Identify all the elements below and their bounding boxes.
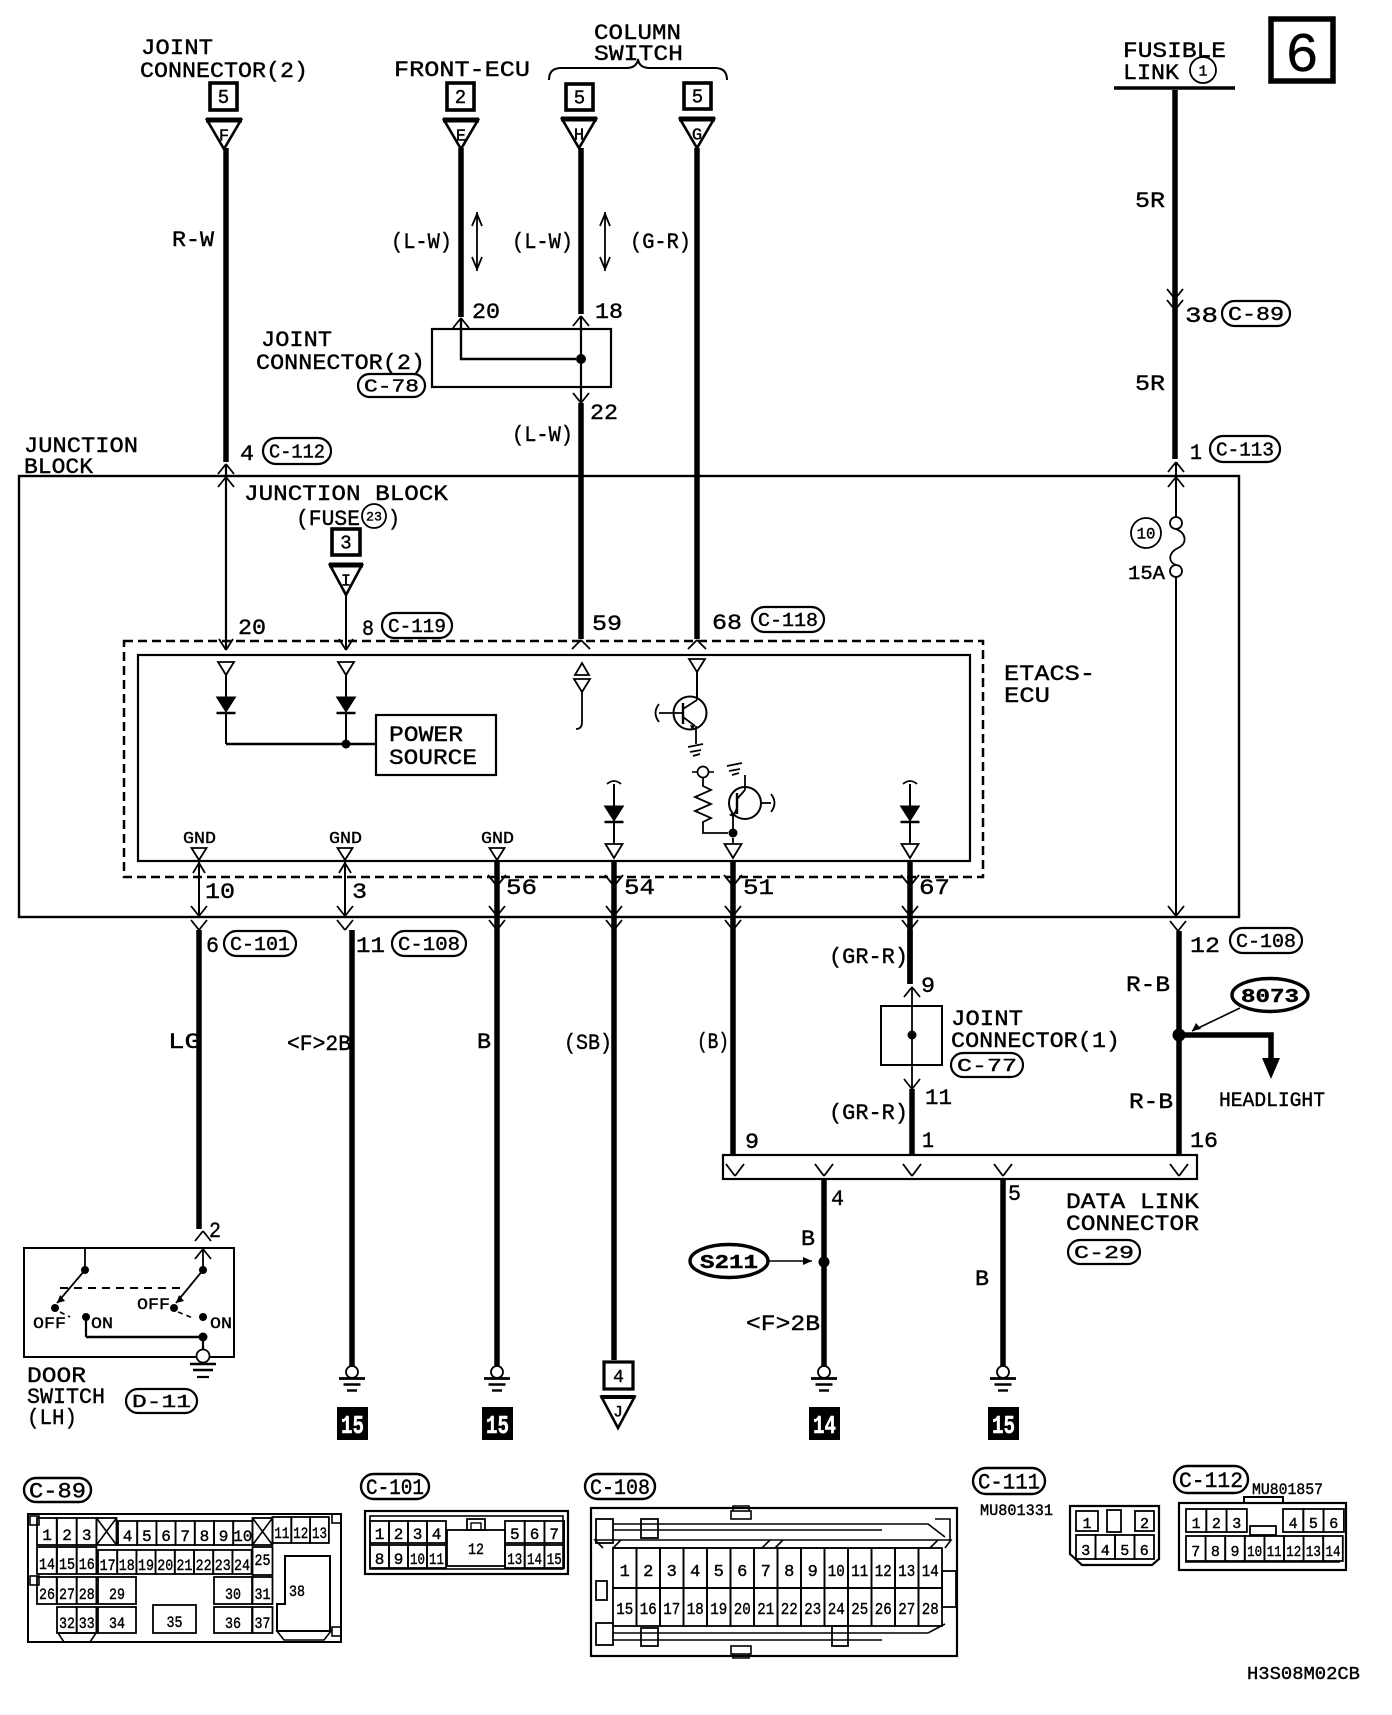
svg-text:C-89: C-89 xyxy=(1228,304,1284,326)
svg-text:C-113: C-113 xyxy=(1216,439,1274,461)
svg-text:19: 19 xyxy=(710,1601,727,1620)
fork at ETACS dashed bottom x=733 xyxy=(724,875,742,886)
svg-text:G: G xyxy=(692,127,702,146)
ground 14 xyxy=(811,1366,837,1391)
svg-text:C-119: C-119 xyxy=(388,616,446,638)
fuse symbol xyxy=(1170,517,1185,577)
svg-text:10: 10 xyxy=(205,880,235,905)
door switch box xyxy=(24,1248,234,1357)
svg-text:36: 36 xyxy=(225,1615,241,1633)
svg-text:5: 5 xyxy=(1008,1182,1021,1207)
fork at ETACS dashed bottom x=614 xyxy=(605,875,623,886)
label 8 (C-119) xyxy=(362,613,452,642)
page number box 6 xyxy=(1271,19,1333,88)
connector pinout C-111 xyxy=(1070,1506,1159,1565)
terminal 15 c xyxy=(988,1407,1019,1441)
svg-text:C-77: C-77 xyxy=(957,1057,1017,1077)
ground 15c xyxy=(990,1366,1016,1391)
svg-text:13: 13 xyxy=(898,1563,915,1582)
label 12 (C-108) right xyxy=(1190,928,1302,959)
fork wire59 into ETACS xyxy=(572,640,590,649)
fork at junction block bottom x=614 xyxy=(606,906,622,930)
door switch pole left xyxy=(51,1248,89,1312)
door switch pole right xyxy=(170,1249,207,1312)
svg-text:34: 34 xyxy=(109,1615,125,1633)
svg-text:54: 54 xyxy=(624,876,655,901)
label <F>2B right xyxy=(746,1312,820,1337)
connector pinout C-112 xyxy=(1179,1497,1346,1570)
svg-text:25: 25 xyxy=(255,1552,271,1570)
svg-text:SOURCE: SOURCE xyxy=(389,746,477,771)
label 1 at DLC xyxy=(922,1129,934,1154)
svg-text:17: 17 xyxy=(100,1557,116,1575)
svg-text:15: 15 xyxy=(341,1411,364,1441)
svg-text:15: 15 xyxy=(616,1601,633,1620)
svg-text:ON: ON xyxy=(210,1315,232,1333)
label B col5 xyxy=(975,1267,989,1292)
ETACS pin triangle 8 xyxy=(338,662,354,675)
svg-text:19: 19 xyxy=(138,1557,154,1575)
svg-text:14: 14 xyxy=(39,1556,55,1574)
wire G-R from G xyxy=(694,148,700,639)
svg-text:33: 33 xyxy=(79,1615,95,1633)
forks wire2 into door switch xyxy=(195,1231,211,1259)
svg-text:E: E xyxy=(456,128,466,147)
svg-text:15: 15 xyxy=(59,1556,75,1574)
terminal 15 b xyxy=(482,1407,513,1441)
label DOOR SWITCH (LH) xyxy=(27,1364,105,1431)
ref C-101 xyxy=(361,1474,429,1501)
svg-text:4: 4 xyxy=(690,1563,700,1582)
ETACS inner box xyxy=(138,655,970,861)
svg-text:14: 14 xyxy=(1326,1544,1341,1561)
wire R-B xyxy=(1176,931,1182,1155)
ETACS pin 59 connector pair xyxy=(574,663,590,729)
label FRONT-ECU xyxy=(394,58,530,83)
fork at junction block bottom x=910 xyxy=(902,906,918,930)
svg-text:MU801331: MU801331 xyxy=(980,1502,1053,1520)
ref C-108 bottom xyxy=(585,1474,655,1501)
headlight branch wire xyxy=(1179,1035,1271,1060)
svg-text:8073: 8073 xyxy=(1241,986,1299,1008)
svg-text:B: B xyxy=(801,1227,815,1252)
wire L-W from H xyxy=(578,148,584,314)
svg-text:20: 20 xyxy=(734,1601,751,1620)
label HEADLIGHT xyxy=(1219,1090,1325,1113)
label COLUMN SWITCH xyxy=(594,21,683,67)
fork at junction block bottom x=199 xyxy=(191,906,207,930)
label (B) xyxy=(697,1030,729,1055)
label 9 at DLC xyxy=(745,1130,759,1155)
wire 56 xyxy=(494,861,500,1366)
wire R-W from F xyxy=(223,148,229,462)
svg-text:3: 3 xyxy=(413,1526,423,1544)
svg-text:CONNECTOR(2): CONNECTOR(2) xyxy=(256,351,425,376)
fork wire68 into ETACS xyxy=(688,640,706,649)
svg-text:(L-W): (L-W) xyxy=(391,230,452,255)
svg-text:9: 9 xyxy=(808,1563,818,1582)
callout 8073 xyxy=(1192,979,1308,1032)
svg-text:23: 23 xyxy=(366,510,382,525)
ETACS pin triangle 20 xyxy=(218,662,234,675)
svg-text:27: 27 xyxy=(59,1586,75,1604)
svg-text:5: 5 xyxy=(574,88,585,110)
ref D-11 xyxy=(126,1389,197,1413)
svg-text:51: 51 xyxy=(743,876,774,901)
svg-text:4: 4 xyxy=(1289,1516,1298,1533)
label LG xyxy=(168,1030,201,1055)
label (L-W) third xyxy=(512,423,573,448)
label JOINT CONNECTOR(2) top-left xyxy=(140,36,308,84)
svg-text:2: 2 xyxy=(455,87,466,109)
svg-text:I: I xyxy=(341,573,351,592)
wire GND2 to junction bottom (thin) xyxy=(339,858,351,916)
svg-text:10: 10 xyxy=(410,1551,425,1569)
connector box 5 (F) xyxy=(210,83,237,110)
svg-text:1: 1 xyxy=(1192,1516,1201,1533)
svg-text:4: 4 xyxy=(1101,1543,1110,1560)
wire B to 14 xyxy=(821,1179,827,1366)
svg-text:6: 6 xyxy=(206,934,219,959)
svg-text:38: 38 xyxy=(289,1583,305,1601)
label 1 (C-113) xyxy=(1190,436,1280,466)
svg-text:JOINT: JOINT xyxy=(141,36,213,61)
fork in DLC x=1179 xyxy=(1170,1164,1188,1176)
svg-text:C-118: C-118 xyxy=(758,610,818,632)
svg-text:10: 10 xyxy=(233,1528,252,1546)
fuse connector box 3 xyxy=(332,529,360,555)
svg-text:9: 9 xyxy=(745,1130,759,1155)
svg-text:2: 2 xyxy=(394,1526,404,1544)
svg-text:B: B xyxy=(975,1267,989,1292)
svg-text:HEADLIGHT: HEADLIGHT xyxy=(1219,1090,1325,1113)
svg-text:7: 7 xyxy=(549,1526,559,1544)
svg-text:3: 3 xyxy=(82,1527,92,1545)
svg-text:CONNECTOR(2): CONNECTOR(2) xyxy=(140,59,308,84)
svg-text:1: 1 xyxy=(922,1129,934,1154)
label ETACS-ECU xyxy=(1004,662,1095,709)
label JOINT CONNECTOR(1) xyxy=(951,1007,1120,1077)
svg-text:10: 10 xyxy=(1137,526,1156,544)
svg-text:9: 9 xyxy=(1230,1544,1239,1561)
svg-text:(L-W): (L-W) xyxy=(512,423,573,448)
svg-text:5R: 5R xyxy=(1135,372,1165,397)
svg-text:C-78: C-78 xyxy=(364,378,419,398)
ref C-89 xyxy=(24,1478,91,1504)
svg-text:14: 14 xyxy=(813,1411,836,1441)
svg-text:23: 23 xyxy=(804,1601,821,1620)
door switch dashes right xyxy=(178,1312,193,1318)
svg-text:14: 14 xyxy=(922,1563,939,1582)
svg-text:17: 17 xyxy=(663,1601,680,1620)
label 4 (C-112) xyxy=(240,438,331,467)
svg-text:26: 26 xyxy=(875,1601,892,1620)
door switch ground bars xyxy=(190,1364,216,1377)
svg-text:8: 8 xyxy=(362,617,374,642)
svg-text:4: 4 xyxy=(123,1528,133,1546)
wire GR-R lower xyxy=(909,1089,915,1155)
svg-text:15A: 15A xyxy=(1128,563,1166,585)
label 54 xyxy=(624,876,655,901)
wire 5R from fusible link xyxy=(1172,90,1178,459)
label 15A xyxy=(1128,563,1166,585)
svg-text:29: 29 xyxy=(109,1586,125,1604)
fork at ETACS dashed bottom x=497 xyxy=(488,875,506,886)
ETACS pin triangle 51 xyxy=(725,838,742,858)
svg-text:21: 21 xyxy=(176,1557,192,1575)
label 56 xyxy=(506,876,537,901)
svg-text:9: 9 xyxy=(394,1551,404,1569)
svg-text:(SB): (SB) xyxy=(564,1031,612,1056)
label 11 (C-108) xyxy=(356,931,466,959)
wire GR-R upper xyxy=(907,930,913,984)
svg-text:20: 20 xyxy=(238,616,266,641)
svg-text:8: 8 xyxy=(1211,1544,1220,1561)
svg-text:JUNCTION BLOCK: JUNCTION BLOCK xyxy=(244,482,449,507)
headlight arrowhead xyxy=(1262,1058,1280,1079)
svg-text:59: 59 xyxy=(592,612,622,637)
wire resistor to dot xyxy=(703,826,728,833)
svg-text:12: 12 xyxy=(468,1541,484,1559)
svg-text:10: 10 xyxy=(1247,1544,1262,1561)
fork in DLC x=1003 xyxy=(994,1164,1012,1176)
svg-text:28: 28 xyxy=(79,1586,95,1604)
svg-text:3: 3 xyxy=(667,1563,677,1582)
fuse connector triangle 1 xyxy=(329,565,363,595)
svg-text:5: 5 xyxy=(692,87,703,109)
wire fusible link to fuse (thin) xyxy=(1175,462,1177,517)
svg-text:ECU: ECU xyxy=(1004,684,1050,709)
label <F>2B left xyxy=(287,1032,351,1057)
svg-text:(G-R): (G-R) xyxy=(630,230,691,255)
label 5R upper xyxy=(1135,189,1165,214)
svg-text:5R: 5R xyxy=(1135,189,1165,214)
label 16 at DLC xyxy=(1190,1129,1218,1154)
svg-text:<F>2B: <F>2B xyxy=(746,1312,820,1337)
transistor Q2 xyxy=(729,775,775,833)
svg-text:C-112: C-112 xyxy=(1179,1469,1243,1494)
svg-text:67: 67 xyxy=(919,876,950,901)
bus diodes to power source xyxy=(226,740,376,749)
junction block outline xyxy=(19,476,1239,917)
junction dot S211 xyxy=(819,1257,830,1268)
label 4 at DLC xyxy=(831,1187,844,1212)
svg-text:4: 4 xyxy=(831,1187,844,1212)
door switch dashed link xyxy=(60,1287,180,1289)
svg-text:4: 4 xyxy=(240,442,254,467)
wire GND1 to junction bottom (thin) xyxy=(193,858,205,916)
svg-text:16: 16 xyxy=(79,1556,95,1574)
svg-text:15: 15 xyxy=(547,1551,562,1569)
svg-text:C-111: C-111 xyxy=(978,1470,1040,1495)
svg-text:C-112: C-112 xyxy=(269,441,325,463)
svg-text:R-W: R-W xyxy=(172,228,215,253)
data link connector box xyxy=(723,1155,1197,1179)
label 10 xyxy=(205,880,235,905)
svg-text:<F>2B: <F>2B xyxy=(287,1032,351,1057)
svg-text:(GR-R): (GR-R) xyxy=(829,945,908,970)
svg-text:7: 7 xyxy=(1191,1544,1200,1561)
svg-text:ON: ON xyxy=(91,1315,113,1333)
svg-text:6: 6 xyxy=(1329,1516,1338,1533)
wire fuse 3 to ETACS pin 8 xyxy=(345,595,347,648)
wire LG xyxy=(196,930,202,1229)
drawing number H3S08M02CB xyxy=(1247,1665,1360,1685)
joint connector C-77 box xyxy=(881,1006,942,1065)
connector pinout C-108 xyxy=(90,0,957,1658)
wire B to 15 xyxy=(1000,1179,1006,1366)
svg-text:R-B: R-B xyxy=(1129,1090,1173,1115)
svg-text:12: 12 xyxy=(293,1525,308,1543)
connector box 5 (H) xyxy=(566,84,593,110)
svg-text:4: 4 xyxy=(613,1368,624,1388)
part number MU801857 xyxy=(1252,1481,1323,1499)
label (G-R) xyxy=(630,230,691,255)
junction dot C-77 xyxy=(908,1031,917,1040)
label FUSIBLE LINK 1 xyxy=(1123,39,1226,86)
svg-text:GND: GND xyxy=(481,830,514,849)
svg-text:1: 1 xyxy=(1198,63,1207,80)
svg-text:C-29: C-29 xyxy=(1074,1244,1134,1264)
svg-text:S211: S211 xyxy=(700,1252,758,1274)
wire through C-77 (thin) xyxy=(911,987,913,1088)
label OFF right xyxy=(137,1296,170,1314)
svg-text:2: 2 xyxy=(643,1563,653,1582)
fork in DLC x=824 xyxy=(815,1164,833,1176)
svg-text:(B): (B) xyxy=(697,1030,729,1055)
svg-text:C-108: C-108 xyxy=(398,934,460,956)
forks wire1 into junction block xyxy=(1168,462,1184,487)
label 2 xyxy=(209,1219,221,1244)
svg-text:C-101: C-101 xyxy=(366,1476,424,1501)
diode D2 xyxy=(337,675,356,744)
svg-text:27: 27 xyxy=(898,1601,915,1620)
GND pin 2 xyxy=(329,830,362,860)
svg-text:): ) xyxy=(388,507,400,532)
svg-text:3: 3 xyxy=(340,533,351,555)
svg-text:3: 3 xyxy=(352,880,367,905)
svg-text:J: J xyxy=(613,1404,623,1422)
svg-text:11: 11 xyxy=(925,1086,952,1111)
fork wire20 into C-78 xyxy=(453,318,469,328)
svg-text:32: 32 xyxy=(59,1615,75,1633)
ground hatch Q2 xyxy=(727,763,742,775)
svg-text:6: 6 xyxy=(530,1526,540,1544)
junction dot R-B xyxy=(1173,1029,1186,1042)
svg-text:5: 5 xyxy=(218,87,229,109)
svg-text:(GR-R): (GR-R) xyxy=(829,1101,908,1126)
svg-text:21: 21 xyxy=(757,1601,774,1620)
label JOINT CONNECTOR(2) C-78 xyxy=(256,328,425,398)
connector triangle H xyxy=(561,119,597,148)
fork in DLC x=735 xyxy=(726,1164,744,1176)
svg-text:2: 2 xyxy=(1212,1516,1221,1533)
fork into C-77 xyxy=(904,987,920,997)
chevrons at C-89 crossing xyxy=(1167,289,1183,310)
svg-text:(L-W): (L-W) xyxy=(512,230,573,255)
label R-W xyxy=(172,228,215,253)
wire 22 to ETACS pin 59 xyxy=(578,403,584,639)
svg-text:30: 30 xyxy=(225,1586,241,1604)
label (L-W) second xyxy=(512,230,573,255)
svg-text:14: 14 xyxy=(527,1551,542,1569)
svg-text:B: B xyxy=(477,1030,491,1055)
label JUNCTION BLOCK outer xyxy=(24,434,138,480)
wire 54 xyxy=(611,861,617,1360)
label 20 at ETACS pin xyxy=(238,616,266,641)
fork wire22 exit C-78 xyxy=(573,393,589,403)
fork at junction block bottom x=497 xyxy=(489,906,505,930)
door switch ON left xyxy=(82,1313,113,1333)
svg-text:8: 8 xyxy=(200,1528,210,1546)
label 6 (C-101) xyxy=(206,931,296,959)
label OFF left xyxy=(33,1315,66,1333)
svg-text:18: 18 xyxy=(595,300,623,325)
door switch ON right xyxy=(199,1313,232,1333)
callout S211 xyxy=(690,1245,812,1278)
svg-text:5: 5 xyxy=(714,1563,724,1582)
svg-text:11: 11 xyxy=(851,1563,868,1582)
svg-text:C-101: C-101 xyxy=(230,934,290,956)
svg-text:9: 9 xyxy=(219,1528,229,1546)
svg-text:2: 2 xyxy=(1140,1516,1149,1533)
svg-text:23: 23 xyxy=(215,1557,231,1575)
forks wire4 into junction block xyxy=(218,464,234,487)
wire fuse to junction block bottom (thin) xyxy=(1175,577,1177,915)
svg-text:22: 22 xyxy=(196,1557,212,1575)
diode D1 xyxy=(217,675,236,744)
label 22 xyxy=(590,401,618,426)
label 5 at DLC xyxy=(1008,1182,1021,1207)
fork at ETACS dashed bottom x=910 xyxy=(901,875,919,886)
svg-text:1: 1 xyxy=(1190,441,1202,466)
POWER SOURCE box xyxy=(376,715,496,775)
svg-text:H: H xyxy=(574,127,584,146)
svg-text:H3S08M02CB: H3S08M02CB xyxy=(1247,1665,1360,1685)
svg-text:68: 68 xyxy=(712,611,742,636)
test point circle Q2 xyxy=(692,767,714,778)
svg-text:6: 6 xyxy=(1140,1543,1149,1560)
diode 54 with hook xyxy=(605,781,624,858)
svg-text:15: 15 xyxy=(486,1411,509,1441)
svg-text:24: 24 xyxy=(234,1557,250,1575)
svg-text:16: 16 xyxy=(640,1601,657,1620)
svg-text:10: 10 xyxy=(828,1563,845,1582)
label (SB) xyxy=(564,1031,612,1056)
label R-B lower xyxy=(1129,1090,1173,1115)
svg-text:11: 11 xyxy=(356,934,385,959)
label R-B upper xyxy=(1126,973,1170,998)
svg-text:56: 56 xyxy=(506,876,537,901)
svg-text:20: 20 xyxy=(157,1557,173,1575)
wire from 4 to ETACS pin 20 (thin) xyxy=(225,464,227,648)
label (GR-R) upper xyxy=(829,945,908,970)
svg-text:12: 12 xyxy=(1190,934,1220,959)
GND pin 1 xyxy=(183,830,216,860)
svg-text:5: 5 xyxy=(142,1528,152,1546)
svg-text:BLOCK: BLOCK xyxy=(24,455,94,480)
svg-text:13: 13 xyxy=(312,1525,327,1543)
label 68 (C-118) xyxy=(712,607,824,636)
svg-text:1: 1 xyxy=(620,1563,630,1582)
label 9 above C-77 xyxy=(921,974,935,999)
svg-text:8: 8 xyxy=(375,1551,385,1569)
svg-text:6: 6 xyxy=(161,1528,171,1546)
svg-text:CONNECTOR(1): CONNECTOR(1) xyxy=(951,1029,1120,1054)
label (GR-R) lower xyxy=(829,1101,908,1126)
svg-text:38: 38 xyxy=(1185,304,1218,329)
wire L-W from E xyxy=(458,148,464,317)
